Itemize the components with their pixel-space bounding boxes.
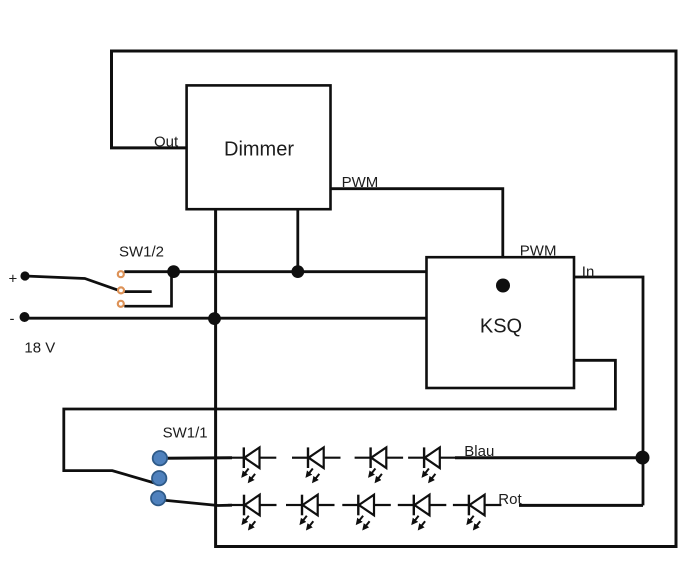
svg-text:PWM: PWM [342, 174, 379, 191]
svg-text:In: In [582, 263, 595, 280]
svg-text:PWM: PWM [520, 243, 557, 260]
svg-text:SW1/1: SW1/1 [163, 424, 208, 441]
svg-text:Blau: Blau [464, 443, 494, 460]
svg-text:Dimmer: Dimmer [224, 139, 294, 161]
svg-text:-: - [10, 311, 15, 328]
svg-text:Rot: Rot [498, 491, 522, 508]
svg-text:+: + [9, 271, 18, 288]
svg-text:SW1/2: SW1/2 [119, 244, 164, 261]
svg-text:KSQ: KSQ [480, 316, 522, 338]
svg-text:Out: Out [154, 133, 179, 150]
svg-text:18 V: 18 V [24, 339, 55, 356]
